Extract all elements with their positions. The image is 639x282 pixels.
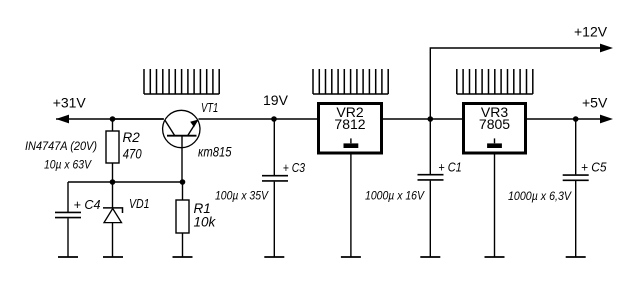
ground VD1 — [103, 256, 123, 258]
svg-text:19V: 19V — [263, 92, 289, 108]
wire C3 bottom lead — [273, 182, 275, 257]
transistor VT1 — [163, 110, 200, 182]
svg-text:1000µ x 6,3V: 1000µ x 6,3V — [508, 189, 572, 203]
svg-text:+31V: +31V — [53, 94, 87, 110]
heatsink over VR2 — [313, 69, 388, 94]
wire VR2 gnd lead — [350, 153, 352, 257]
wire C4 bottom lead — [67, 218, 69, 257]
svg-text:+ C3: + C3 — [283, 160, 306, 175]
wire VR3 gnd lead — [494, 153, 496, 257]
ground C5 — [566, 256, 586, 258]
wire emitter to VR2 — [199, 118, 318, 120]
svg-text:7805: 7805 — [479, 116, 510, 132]
svg-text:кт815: кт815 — [198, 144, 232, 159]
svg-text:R2: R2 — [123, 130, 141, 145]
gnd tab VR2 — [350, 138, 352, 143]
resistor R1 — [176, 200, 189, 233]
wire R2 top lead — [112, 119, 114, 131]
svg-text:10µ x 63V: 10µ x 63V — [44, 158, 92, 172]
heatsink over VR3 — [457, 69, 533, 94]
node base junction — [180, 179, 186, 185]
svg-text:470: 470 — [123, 147, 142, 162]
wire C1 top lead — [429, 119, 431, 174]
power arrow +12V — [600, 44, 613, 53]
node VD1 top junction — [110, 179, 116, 185]
wire C1 bottom lead — [429, 181, 431, 257]
wire C3 top lead — [273, 119, 275, 175]
svg-text:+5V: +5V — [582, 95, 608, 111]
regulator VR2 — [319, 104, 382, 154]
ground R1 — [173, 256, 193, 258]
capacitor C5 — [563, 175, 589, 180]
svg-text:+ C5: + C5 — [581, 160, 607, 175]
wire C5 top lead — [575, 119, 577, 174]
wire VR2 out — [383, 118, 462, 120]
wire VD1 bottom lead — [112, 223, 114, 257]
svg-text:1000µ x 16V: 1000µ x 16V — [365, 189, 425, 203]
wire R2 bottom lead — [112, 163, 114, 182]
capacitor C3 — [262, 176, 288, 181]
ground C3 — [264, 256, 284, 258]
regulator VR3 — [464, 104, 526, 154]
wire R1 bottom lead — [182, 233, 184, 257]
node 19V — [271, 116, 277, 122]
node C1 junction — [428, 116, 434, 122]
wire base net y182 — [68, 181, 183, 183]
svg-text:VD1: VD1 — [129, 196, 150, 211]
svg-text:+ C4: + C4 — [74, 197, 101, 212]
wire C5 bottom lead — [575, 181, 577, 257]
ground C4 — [58, 256, 78, 258]
ground C1 — [420, 256, 440, 258]
wire input rail — [56, 118, 163, 120]
zener VD1 — [103, 208, 123, 213]
wire VR3 out — [526, 118, 602, 120]
svg-text:10k: 10k — [194, 215, 217, 230]
power arrow +31V — [56, 115, 69, 124]
wire collector — [113, 118, 165, 120]
node C5 junction — [573, 116, 579, 122]
resistor R2 — [106, 131, 119, 163]
wire R1 top lead — [182, 182, 184, 200]
gnd tab VR3 — [494, 138, 496, 143]
svg-text:7812: 7812 — [334, 116, 365, 132]
capacitor C4 — [55, 212, 81, 217]
node R2 top junction — [110, 116, 116, 122]
ground VR3 — [485, 256, 505, 258]
heatsink over VT1 — [144, 69, 219, 94]
svg-text:VT1: VT1 — [201, 100, 218, 115]
svg-text:100µ x 35V: 100µ x 35V — [215, 189, 269, 203]
power arrow +5V — [600, 115, 613, 124]
ground VR2 — [341, 256, 361, 258]
wire +12V riser — [430, 48, 601, 119]
svg-text:+12V: +12V — [574, 24, 608, 40]
svg-text:+ C1: + C1 — [438, 160, 462, 175]
svg-text:IN4747A (20V): IN4747A (20V) — [25, 139, 97, 153]
capacitor C1 — [418, 175, 444, 180]
wire VD1 top lead — [112, 182, 114, 208]
wire C4 top lead — [67, 182, 69, 212]
